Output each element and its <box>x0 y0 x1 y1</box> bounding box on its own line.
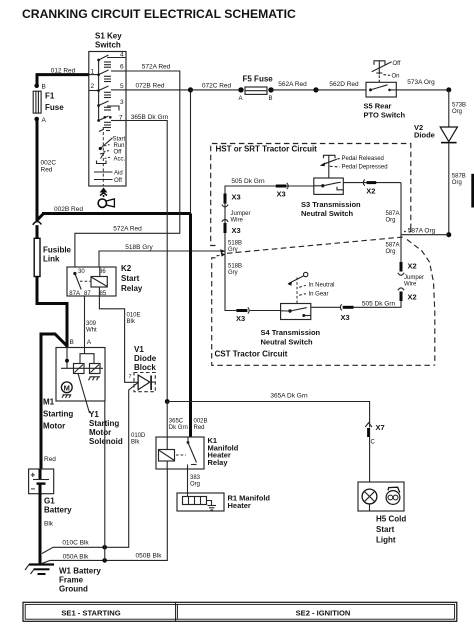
svg-text:Frame: Frame <box>59 576 84 585</box>
S1 contact row 1 <box>97 59 100 62</box>
svg-text:Org: Org <box>190 481 200 487</box>
svg-text:562A Red: 562A Red <box>278 81 307 88</box>
S1 rotary pointer <box>99 147 102 150</box>
solenoid contact line <box>61 367 103 369</box>
section divider <box>175 602 177 621</box>
svg-text:562D Red: 562D Red <box>329 81 359 88</box>
svg-text:Start: Start <box>376 525 395 534</box>
svg-text:572A Red: 572A Red <box>113 226 142 233</box>
S1 key glyph <box>98 199 106 207</box>
wire S4 to X3 left <box>250 310 281 312</box>
relay K2 box <box>67 267 116 296</box>
svg-text:Starting: Starting <box>43 410 73 419</box>
wire X7 to H5 <box>369 437 371 482</box>
switch S5 box <box>366 82 396 97</box>
svg-text:587A Org: 587A Org <box>408 228 436 235</box>
svg-text:572A Red: 572A Red <box>142 64 171 71</box>
fuse F5 <box>245 87 267 94</box>
svg-text:S3 Transmission: S3 Transmission <box>301 200 361 209</box>
connector X2 lower right <box>400 292 403 302</box>
key switch S1 box <box>89 52 126 187</box>
svg-text:X7: X7 <box>376 423 385 432</box>
svg-text:S1 Key: S1 Key <box>95 32 122 41</box>
S5 actuator <box>374 61 385 65</box>
svg-text:F5 Fuse: F5 Fuse <box>243 75 274 84</box>
svg-text:X3: X3 <box>232 193 241 202</box>
svg-text:CRANKING CIRCUIT ELECTRICAL SC: CRANKING CIRCUIT ELECTRICAL SCHEMATIC <box>22 7 296 21</box>
svg-text:050A Blk: 050A Blk <box>63 553 89 560</box>
svg-text:Run: Run <box>114 143 125 149</box>
svg-text:S4 Transmission: S4 Transmission <box>261 328 321 337</box>
svg-text:505 Dk Grn: 505 Dk Grn <box>362 301 396 308</box>
diagonal end arrow <box>217 254 221 257</box>
battery short plate <box>37 482 46 484</box>
HST CST divider dashed diagonal <box>227 237 403 253</box>
node 365 junction <box>165 399 170 404</box>
svg-text:Off: Off <box>393 61 401 67</box>
CST dashed box <box>212 258 435 366</box>
K2 coil box <box>91 277 107 288</box>
fusible link F2 <box>34 238 40 276</box>
diode V2 <box>440 127 457 142</box>
svg-text:PTO Switch: PTO Switch <box>364 111 406 120</box>
svg-text:S5 Rear: S5 Rear <box>364 102 392 111</box>
S5 On dash <box>384 74 391 77</box>
svg-text:Blk: Blk <box>127 319 136 325</box>
svg-text:X3: X3 <box>277 190 286 199</box>
ground W1 <box>29 563 54 565</box>
svg-text:A: A <box>42 117 47 124</box>
svg-text:7: 7 <box>129 374 132 380</box>
svg-text:F1: F1 <box>45 92 55 101</box>
wire S3 to X2 <box>343 182 401 184</box>
starting motor M1 box <box>56 348 105 402</box>
svg-text:Battery: Battery <box>44 506 72 515</box>
K1 switch blade <box>187 437 189 443</box>
K1 coil stubs <box>166 461 168 469</box>
svg-text:Ground: Ground <box>59 585 88 594</box>
svg-text:Blk: Blk <box>131 440 140 446</box>
svg-text:Y1: Y1 <box>89 410 99 419</box>
S1 contact row 3 <box>97 89 100 92</box>
svg-text:Pedal Released: Pedal Released <box>342 156 384 162</box>
heater R1 box <box>177 493 224 511</box>
svg-text:3: 3 <box>120 99 124 106</box>
svg-text:309: 309 <box>86 321 97 327</box>
cold start light H5 box <box>358 482 404 511</box>
svg-text:010E: 010E <box>127 313 141 319</box>
svg-text:587B: 587B <box>452 174 466 180</box>
svg-text:365C: 365C <box>169 419 184 425</box>
S3 blade <box>321 184 324 187</box>
diode V1 <box>137 375 139 390</box>
S1 contact row 5 pin7 <box>97 119 100 122</box>
svg-text:X2: X2 <box>408 293 417 302</box>
svg-text:Org: Org <box>452 109 462 115</box>
svg-text:87A: 87A <box>69 291 80 297</box>
solenoid contact K box 1 <box>74 364 85 374</box>
S1 detent marker <box>97 161 107 164</box>
solenoid contact K box 2 <box>90 364 101 374</box>
motor ground <box>63 394 72 396</box>
HST dashed box <box>211 144 411 246</box>
solenoid contact 2 ground hatch <box>90 376 101 378</box>
S1 contact row 4 <box>97 104 100 107</box>
connector X3 on vertical <box>224 194 227 204</box>
node 072 junction <box>188 87 193 92</box>
svg-text:587A: 587A <box>386 243 400 249</box>
S1 off contact <box>94 179 113 181</box>
svg-text:010C Blk: 010C Blk <box>62 540 89 547</box>
section bar outer <box>23 602 457 621</box>
node 562 junction <box>313 87 318 92</box>
connector X3 left of S4 <box>236 309 247 312</box>
svg-text:85: 85 <box>100 291 107 297</box>
svg-text:072B Red: 072B Red <box>136 82 165 89</box>
svg-text:383: 383 <box>190 475 201 481</box>
S5 blade <box>369 88 372 91</box>
junction arrow mark <box>220 249 225 253</box>
svg-text:X3: X3 <box>236 314 245 323</box>
svg-text:87: 87 <box>84 291 91 297</box>
K1 coil box <box>159 450 175 462</box>
svg-text:Motor: Motor <box>89 428 111 437</box>
solenoid feed bracket <box>80 354 94 364</box>
svg-text:Off: Off <box>114 150 122 156</box>
svg-text:On: On <box>392 73 400 79</box>
jumper wire arcs <box>222 205 228 207</box>
svg-text:A: A <box>239 96 243 102</box>
svg-text:518B: 518B <box>228 264 242 270</box>
connector X2 upper right <box>400 262 403 272</box>
svg-text:518B Gry: 518B Gry <box>125 244 153 251</box>
svg-text:30: 30 <box>78 269 85 275</box>
svg-text:X2: X2 <box>366 186 375 195</box>
H5 lamp <box>362 489 377 504</box>
svg-text:C: C <box>371 440 376 446</box>
section bar inner <box>25 604 454 619</box>
svg-text:K2: K2 <box>121 264 132 273</box>
svg-text:In Neutral: In Neutral <box>309 283 335 289</box>
svg-text:Light: Light <box>376 536 396 545</box>
S1 aid contact <box>94 171 113 173</box>
svg-text:Red: Red <box>41 167 53 174</box>
S4 actuator <box>304 272 308 276</box>
svg-text:Wht: Wht <box>86 328 97 334</box>
svg-text:Solenoid: Solenoid <box>89 437 123 446</box>
connector X3 on horizontal <box>276 185 287 188</box>
svg-text:Dk Grn: Dk Grn <box>169 425 188 431</box>
solenoid B internal wire <box>66 348 68 369</box>
svg-text:2: 2 <box>91 83 95 90</box>
svg-text:−: − <box>31 485 36 494</box>
connector bar at right edge <box>471 174 474 208</box>
node 050A junction <box>102 558 107 563</box>
svg-text:Start: Start <box>113 136 126 142</box>
svg-text:M: M <box>64 383 70 392</box>
svg-text:A: A <box>87 339 92 346</box>
svg-text:G1: G1 <box>44 497 55 506</box>
svg-text:B: B <box>42 84 46 91</box>
svg-text:+: + <box>31 471 36 480</box>
svg-text:050B Blk: 050B Blk <box>135 553 162 560</box>
node 573 junction <box>446 87 451 92</box>
svg-text:Neutral Switch: Neutral Switch <box>301 209 354 218</box>
node B of F1 <box>34 84 39 89</box>
svg-text:Gry: Gry <box>228 270 238 276</box>
svg-text:V1: V1 <box>134 345 144 354</box>
svg-text:Diode: Diode <box>414 131 435 140</box>
svg-text:SE1 - STARTING: SE1 - STARTING <box>61 608 120 617</box>
S3 pedal symbol <box>324 155 336 158</box>
svg-text:X3: X3 <box>232 226 241 235</box>
svg-text:Pedal Depressed: Pedal Depressed <box>342 165 388 171</box>
svg-text:573A Org: 573A Org <box>407 79 435 86</box>
svg-text:573B: 573B <box>452 103 466 109</box>
svg-text:Switch: Switch <box>95 41 121 50</box>
S1 contact row 2 <box>97 73 100 76</box>
node A of F5 <box>238 87 243 92</box>
R1 element <box>183 497 207 505</box>
motor case ground wire <box>104 401 106 560</box>
K1 actuate dash <box>176 454 186 456</box>
svg-text:H5 Cold: H5 Cold <box>376 515 406 524</box>
Y1 callout line <box>78 374 90 414</box>
svg-text:Motor: Motor <box>43 422 65 431</box>
svg-text:Jumper: Jumper <box>404 275 424 281</box>
R1 ground <box>207 501 212 506</box>
svg-text:Wire: Wire <box>231 218 244 224</box>
wire 518B Gry CST <box>225 251 236 311</box>
svg-text:In Gear: In Gear <box>309 292 329 298</box>
svg-text:Wire: Wire <box>404 282 417 288</box>
svg-text:Aid: Aid <box>114 171 123 177</box>
S1 rotary dashed stem <box>102 132 104 186</box>
svg-text:Link: Link <box>43 255 60 264</box>
switch S3 box <box>314 178 344 194</box>
connector X3 right of S4 <box>340 304 342 310</box>
svg-text:Relay: Relay <box>121 284 143 293</box>
svg-text:Diode: Diode <box>134 354 157 363</box>
splice hop symbol on battery cable <box>33 222 42 226</box>
battery positive cable <box>41 334 67 469</box>
wire X3 to S4 <box>311 306 341 308</box>
svg-text:6: 6 <box>120 64 124 71</box>
svg-text:SE2 - IGNITION: SE2 - IGNITION <box>296 608 351 617</box>
battery cable from fusible link to solenoid B <box>37 277 67 348</box>
battery long plate <box>33 479 49 481</box>
svg-text:Gry: Gry <box>228 247 238 253</box>
connector X3 lower <box>224 223 227 233</box>
fuse F1 <box>33 91 41 113</box>
svg-text:Org: Org <box>386 249 396 255</box>
K2 actuate dash <box>80 280 91 282</box>
svg-text:Acc.: Acc. <box>114 156 126 162</box>
H5 hourmeter icon <box>386 491 400 505</box>
S1 internal bus wire <box>98 59 100 120</box>
S3 actuator stem <box>328 172 330 179</box>
svg-text:M1: M1 <box>43 398 55 407</box>
battery negative cable <box>39 494 42 565</box>
node B of F5 <box>268 87 273 92</box>
S1 key arrow <box>100 188 108 193</box>
svg-text:Jumper: Jumper <box>231 211 251 217</box>
svg-text:5: 5 <box>120 83 124 90</box>
svg-text:Start: Start <box>121 274 140 283</box>
switch S4 box <box>281 304 311 320</box>
battery G1 box <box>29 469 54 494</box>
svg-text:Block: Block <box>134 363 156 372</box>
relay K1 box <box>156 437 204 469</box>
diode block V1 dashed box <box>134 373 155 392</box>
S1 lower contact tick <box>99 127 103 132</box>
H5 lamp lower stub <box>369 504 371 511</box>
svg-text:365A Dk Grn: 365A Dk Grn <box>270 393 308 400</box>
K2 switch blade <box>73 272 76 275</box>
svg-text:002B Red: 002B Red <box>54 206 83 213</box>
svg-text:Fusible: Fusible <box>43 246 72 255</box>
connector X7 <box>365 423 372 427</box>
node 587 junction <box>446 232 451 237</box>
connector X2 <box>363 180 365 186</box>
svg-text:Blk: Blk <box>44 521 54 528</box>
svg-text:Off: Off <box>114 178 122 184</box>
svg-text:W1 Battery: W1 Battery <box>59 567 101 576</box>
svg-text:Fuse: Fuse <box>45 103 64 112</box>
K2 pin 86 stub <box>99 267 101 277</box>
node 010C junction <box>102 545 107 550</box>
svg-text:B: B <box>70 339 74 346</box>
svg-text:Org: Org <box>452 180 462 186</box>
svg-text:002C: 002C <box>41 160 57 167</box>
svg-text:Starting: Starting <box>89 419 119 428</box>
svg-text:HST or SRT Tractor Circuit: HST or SRT Tractor Circuit <box>216 145 318 154</box>
svg-text:Heater: Heater <box>228 501 251 510</box>
svg-text:Red: Red <box>44 456 56 463</box>
S4 blade <box>288 309 291 312</box>
svg-text:X3: X3 <box>341 313 350 322</box>
svg-text:587A: 587A <box>386 211 400 217</box>
svg-text:002B: 002B <box>194 419 208 425</box>
svg-text:Red: Red <box>194 425 205 431</box>
svg-text:518B: 518B <box>228 241 242 247</box>
svg-text:CST Tractor Circuit: CST Tractor Circuit <box>215 350 288 359</box>
svg-text:010D: 010D <box>131 433 146 439</box>
svg-text:Org: Org <box>386 218 396 224</box>
svg-text:X2: X2 <box>408 262 417 271</box>
node A of F1 <box>34 117 39 122</box>
motor M circle <box>61 382 72 393</box>
svg-text:B: B <box>269 96 273 102</box>
svg-text:072C Red: 072C Red <box>202 82 232 89</box>
svg-text:505 Dk Grn: 505 Dk Grn <box>231 178 265 185</box>
svg-text:Neutral Switch: Neutral Switch <box>261 337 314 346</box>
jumper wire arcs right <box>398 273 404 275</box>
svg-text:Relay: Relay <box>208 458 229 467</box>
wire to fusible link <box>36 225 39 238</box>
